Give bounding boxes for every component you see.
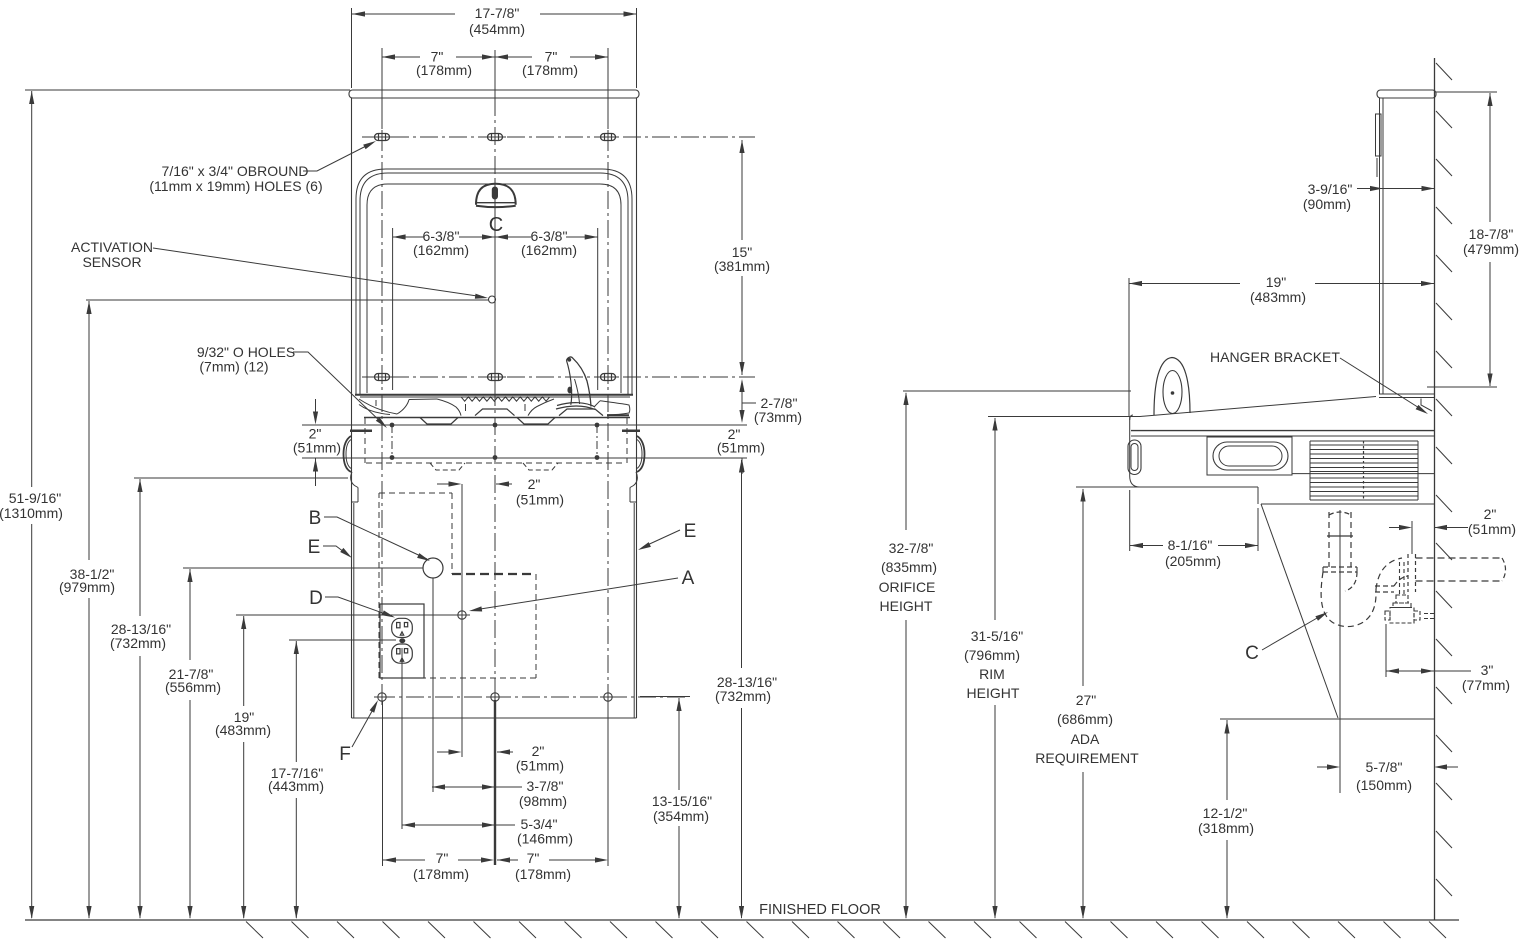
svg-text:(454mm): (454mm) <box>469 21 525 37</box>
side view: front tab detail <box>1376 114 1382 156</box>
hood nozzle slot <box>493 187 498 198</box>
svg-text:(150mm): (150mm) <box>1356 777 1412 793</box>
lower cabinet inner side lines <box>353 503 355 718</box>
svg-text:51-9/16": 51-9/16" <box>9 490 61 506</box>
dim 2in left of basin <box>315 399 317 412</box>
center heavy line below cabinet <box>494 700 496 865</box>
dim 12-1/2 <box>1226 720 1228 800</box>
svg-text:(354mm): (354mm) <box>653 808 709 824</box>
outlet center screw <box>399 638 405 643</box>
dim 3in: extension <box>1385 624 1387 677</box>
side view: vent grille <box>1309 441 1311 500</box>
svg-text:FINISHED FLOOR: FINISHED FLOOR <box>759 902 881 918</box>
basin right deck lip <box>600 401 630 415</box>
svg-text:(178mm): (178mm) <box>413 866 469 882</box>
circle B drain location <box>423 558 443 578</box>
svg-text:(483mm): (483mm) <box>215 722 271 738</box>
svg-text:(162mm): (162mm) <box>413 242 469 258</box>
svg-text:(7mm) (12): (7mm) (12) <box>199 359 268 375</box>
svg-text:3-9/16": 3-9/16" <box>1308 181 1353 197</box>
svg-text:(162mm): (162mm) <box>521 242 577 258</box>
svg-text:(146mm): (146mm) <box>517 831 573 847</box>
side view: cabinet bottom <box>1379 393 1435 395</box>
svg-text:17-7/8": 17-7/8" <box>475 5 520 21</box>
svg-text:3": 3" <box>1481 662 1494 678</box>
side view: bottom lip with ADA extension <box>1076 486 1258 488</box>
dim 5-3/4 bottom <box>402 824 495 826</box>
basin right end heavy tick <box>622 430 640 433</box>
svg-text:(796mm): (796mm) <box>964 647 1020 663</box>
dim 7in top pair: extension lines <box>381 48 383 128</box>
side view: top band lines <box>1131 430 1434 432</box>
left dim column 38-1/2 with sensor extension <box>86 299 488 301</box>
dim 13-15/16 <box>678 698 680 790</box>
P-trap J-bend dashed curve <box>1321 572 1376 627</box>
svg-text:31-5/16": 31-5/16" <box>971 628 1023 644</box>
electrical access dashed outline <box>379 492 452 494</box>
svg-text:F: F <box>339 744 351 765</box>
svg-text:REQUIREMENT: REQUIREMENT <box>1035 750 1139 766</box>
svg-text:(98mm): (98mm) <box>519 793 567 809</box>
dim 2in at wall <box>1389 527 1400 529</box>
front view: bottle filler dispense hood <box>476 184 516 205</box>
svg-text:(381mm): (381mm) <box>714 258 770 274</box>
wall line <box>1434 58 1436 920</box>
hidden back panel dashed rectangle <box>364 418 366 463</box>
dim 2in above bottom dims <box>437 751 451 753</box>
svg-text:ADA: ADA <box>1071 731 1100 747</box>
svg-text:(1310mm): (1310mm) <box>0 505 63 521</box>
dim 18-7/8 <box>1489 93 1491 222</box>
centerline through upper holes <box>362 136 755 138</box>
hole column centerline right x=608 <box>607 104 609 697</box>
vertical line through point A <box>461 484 463 757</box>
dim 2in below basin center <box>437 483 451 485</box>
svg-text:D: D <box>309 588 323 609</box>
dim 19 <box>1129 283 1240 285</box>
svg-text:(835mm): (835mm) <box>881 559 937 575</box>
leader E right <box>643 530 680 547</box>
svg-text:RIM: RIM <box>979 666 1005 682</box>
leader E left <box>323 546 348 555</box>
leader C to trap <box>1262 614 1324 650</box>
left dim column 21-7/8 with extension to circle B <box>183 567 423 569</box>
side view: oval recess outer <box>1213 442 1288 470</box>
dim 7in bottom-right <box>497 857 510 862</box>
dim 2in at wall: extension <box>1411 521 1413 554</box>
front view: upper shroud outer edge inner line <box>360 173 628 395</box>
dim 31-5/16 rim height <box>994 418 996 620</box>
dim 15in right side <box>741 140 743 240</box>
svg-text:HEIGHT: HEIGHT <box>967 685 1020 701</box>
tailpiece flange <box>1323 566 1357 568</box>
extension line x=608 lower <box>607 701 609 866</box>
front view: mounting panel sides and bottom <box>351 98 353 718</box>
leader to 9/32 holes <box>293 352 384 425</box>
basin bottom trapezoid features <box>420 418 458 425</box>
hanger bracket jog detail <box>1421 399 1432 412</box>
dim 6-3/8 pair: extension lines <box>392 228 394 390</box>
front view: shroud recess panel <box>367 184 621 393</box>
svg-text:(556mm): (556mm) <box>165 679 221 695</box>
dim 2-7/8 right side <box>741 381 743 421</box>
right basin side bulge <box>637 436 645 472</box>
dim 27 ADA requirement <box>1076 486 1083 488</box>
svg-text:18-7/8": 18-7/8" <box>1469 226 1514 242</box>
svg-text:7": 7" <box>527 850 540 866</box>
leader hanger bracket <box>1340 358 1424 411</box>
svg-text:(11mm x 19mm) HOLES (6): (11mm x 19mm) HOLES (6) <box>149 178 322 194</box>
finished floor hatching <box>246 922 263 939</box>
svg-text:(51mm): (51mm) <box>516 758 564 774</box>
svg-text:E: E <box>684 521 697 542</box>
centerline through middle holes <box>362 376 755 378</box>
svg-text:(51mm): (51mm) <box>293 440 341 456</box>
activation sensor point <box>489 296 496 303</box>
basin left end heavy tick <box>350 430 372 433</box>
svg-text:12-1/2": 12-1/2" <box>1203 805 1248 821</box>
svg-text:(51mm): (51mm) <box>1468 521 1516 537</box>
dim 8-1/16 <box>1130 545 1163 547</box>
svg-text:(483mm): (483mm) <box>1250 289 1306 305</box>
svg-text:A: A <box>682 568 695 589</box>
svg-text:SENSOR: SENSOR <box>82 254 141 270</box>
svg-text:(318mm): (318mm) <box>1198 820 1254 836</box>
dim 31-5/16 rim height: extension <box>988 416 1140 418</box>
side view: top slant to hanger <box>1140 397 1376 417</box>
side view: lower back line <box>1261 503 1434 505</box>
dim 32-7/8 orifice height: extension <box>903 390 1131 392</box>
heavy dashed segment <box>452 573 536 575</box>
duplex outlet plate <box>380 604 424 678</box>
svg-text:(178mm): (178mm) <box>416 62 472 78</box>
F mounting holes row <box>378 693 386 701</box>
basin right pedestal <box>559 409 603 416</box>
side view: cabinet top cap <box>1377 90 1436 98</box>
centerline through F holes <box>377 696 686 698</box>
svg-text:19": 19" <box>1266 274 1287 290</box>
svg-text:ORIFICE: ORIFICE <box>879 579 936 595</box>
left dim column 19 with extension to point A <box>236 614 456 616</box>
upper obround mounting holes row (y=137) <box>375 134 390 141</box>
svg-text:(479mm): (479mm) <box>1463 241 1519 257</box>
dim 17-7/8 top: extension lines <box>351 8 353 88</box>
side view: recess rectangle <box>1207 437 1292 475</box>
dim 12-1/2: extension <box>1220 718 1434 720</box>
svg-text:(205mm): (205mm) <box>1165 553 1221 569</box>
side view: front pill button <box>1128 440 1141 475</box>
side view: bubbler profile <box>1154 358 1190 416</box>
svg-text:(686mm): (686mm) <box>1057 711 1113 727</box>
bolt pattern dots on reference lines <box>390 423 395 428</box>
svg-text:B: B <box>309 508 322 529</box>
waste pipe into wall dashed <box>1416 557 1503 559</box>
dim 13-15/16: extension line <box>640 696 690 698</box>
svg-text:2": 2" <box>528 476 541 492</box>
side view: underside diagonal <box>1261 504 1338 718</box>
svg-text:(51mm): (51mm) <box>516 492 564 508</box>
side view: oval recess inner <box>1219 446 1282 466</box>
svg-text:2": 2" <box>1484 506 1497 522</box>
bubbler base <box>557 403 595 407</box>
side view: trap tailpiece dashed <box>1328 512 1330 567</box>
left dim column 28-13/16 <box>134 477 348 479</box>
dim 6-3/8 left <box>393 236 424 238</box>
leader B to circle <box>324 517 427 559</box>
dim 18-7/8: extensions <box>1436 91 1497 93</box>
leader to obround hole <box>303 143 372 171</box>
left bracket curve below bulge <box>351 472 358 488</box>
basin bottom edge <box>364 417 630 419</box>
dim 17-7/8 top: dimension line and arrows <box>352 13 455 15</box>
dim 32-7/8 orifice height <box>905 393 907 530</box>
leader A to supply point <box>474 578 678 610</box>
svg-text:3-7/8": 3-7/8" <box>527 778 564 794</box>
finished floor line <box>25 919 1459 921</box>
svg-text:HEIGHT: HEIGHT <box>880 598 933 614</box>
trap outlet elbow dashed arc <box>1376 558 1402 589</box>
svg-text:7": 7" <box>436 850 449 866</box>
dim 2in right side <box>741 458 743 474</box>
dim 6-3/8 right <box>495 236 531 238</box>
svg-text:(77mm): (77mm) <box>1462 677 1510 693</box>
dim 7in top-left <box>382 56 420 58</box>
vertical centerline x=495 <box>494 50 496 98</box>
point A water supply symbol <box>458 611 466 619</box>
svg-text:13-15/16": 13-15/16" <box>652 793 712 809</box>
svg-text:27": 27" <box>1076 692 1097 708</box>
side view: bubbler inner oval <box>1163 371 1182 414</box>
vertical line from circle B <box>432 578 434 792</box>
leader F to mounting hole <box>352 704 376 747</box>
duplex outlet lower receptacle <box>392 644 413 663</box>
supply stop valve dashed <box>1396 595 1408 603</box>
svg-text:(732mm): (732mm) <box>110 635 166 651</box>
hole column centerline left x=382 <box>381 104 383 697</box>
grille center dotted line <box>1363 441 1365 500</box>
tailpiece slip joint line <box>1327 535 1353 537</box>
dim 5-7/8: extension line through trap <box>1339 510 1341 793</box>
dim 3-7/8 bottom <box>432 786 495 788</box>
right bracket curve below bulge <box>630 472 637 488</box>
basin right bowl wall <box>528 399 554 416</box>
svg-text:E: E <box>308 537 321 558</box>
trap outlet arm dashed <box>1375 585 1394 587</box>
dim 28-13/16 right side <box>741 460 743 668</box>
svg-text:(979mm): (979mm) <box>59 579 115 595</box>
svg-text:32-7/8": 32-7/8" <box>889 540 934 556</box>
svg-text:ACTIVATION: ACTIVATION <box>71 239 153 255</box>
leader to activation sensor <box>153 248 484 297</box>
extension line x=382 lower <box>382 701 384 866</box>
middle obround mounting holes row (y=377) <box>375 374 390 381</box>
svg-text:8-1/16": 8-1/16" <box>1168 537 1213 553</box>
basin left bowl wall <box>437 399 461 416</box>
leader D to outlet <box>325 597 391 616</box>
horizontal reference line at y=458 <box>302 457 747 459</box>
svg-text:(51mm): (51mm) <box>717 440 765 456</box>
side view: fountain front face <box>1130 417 1140 488</box>
svg-text:HANGER BRACKET: HANGER BRACKET <box>1210 349 1340 365</box>
svg-text:7/16" x 3/4" OBROUND: 7/16" x 3/4" OBROUND <box>162 163 309 179</box>
left dim column 17-7/16 with extension to outlet <box>289 639 396 641</box>
wall hatching <box>1436 63 1452 80</box>
waste pipe escutcheon at wall <box>1407 554 1409 592</box>
dim 8-1/16: extensions <box>1129 490 1131 551</box>
front view: upper shroud outer edge <box>356 169 632 395</box>
left dim column 51-9/16 <box>25 89 350 91</box>
dim 7in top-right <box>495 56 532 58</box>
duplex outlet upper receptacle <box>392 618 413 637</box>
front view: mounting panel top cap <box>349 90 639 98</box>
svg-text:5-7/8": 5-7/8" <box>1366 759 1403 775</box>
basin drain strainer teeth <box>461 397 550 401</box>
svg-text:(732mm): (732mm) <box>715 688 771 704</box>
dim 19: extension <box>1128 278 1130 416</box>
vertical line from outlet ground <box>401 648 403 829</box>
left basin side bulge <box>344 436 352 472</box>
basin deck left wing <box>359 399 397 414</box>
svg-text:(90mm): (90mm) <box>1303 196 1351 212</box>
svg-text:(178mm): (178mm) <box>515 866 571 882</box>
basin rim back edge <box>355 394 633 396</box>
side view: cabinet front edge double line <box>1379 98 1381 394</box>
bubbler horn profile <box>567 357 592 407</box>
dim 7in bottom-left <box>383 859 425 861</box>
dim 3in <box>1386 670 1471 672</box>
bolt pattern vertical dash-dot connectors <box>391 425 393 458</box>
svg-text:(178mm): (178mm) <box>522 62 578 78</box>
side view: step down <box>1257 487 1259 504</box>
supply riser dashed <box>1399 562 1401 595</box>
basin center pedestal <box>475 409 515 416</box>
side view: mid horizontal line <box>1292 473 1434 475</box>
svg-text:(73mm): (73mm) <box>754 409 802 425</box>
svg-text:C: C <box>489 214 503 236</box>
svg-text:(443mm): (443mm) <box>268 778 324 794</box>
horizontal reference line at y=425 <box>302 424 747 426</box>
svg-text:C: C <box>1245 643 1259 664</box>
dim 5-7/8 <box>1317 766 1328 768</box>
